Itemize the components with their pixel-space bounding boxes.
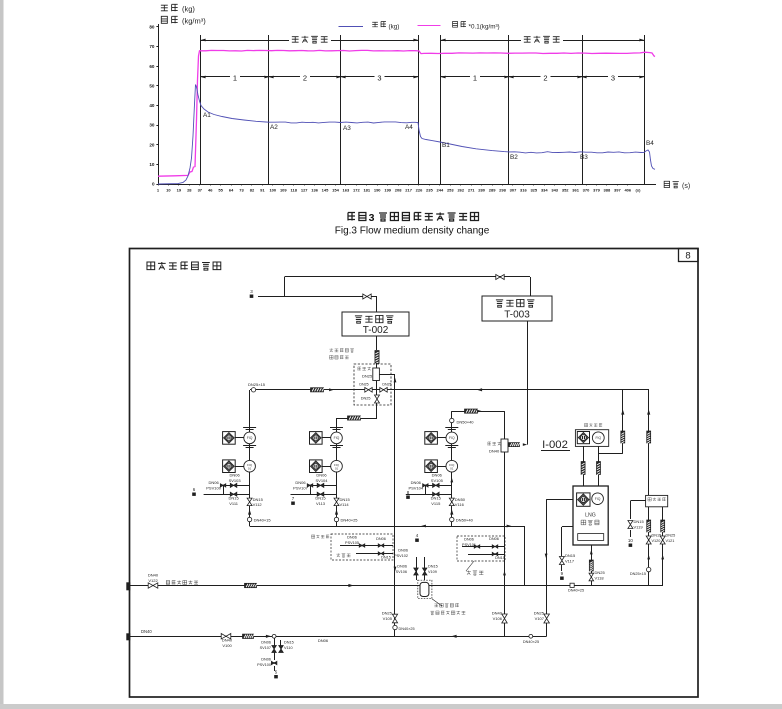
svg-text:LNG: LNG [585,513,596,519]
svg-text:V121: V121 [666,539,675,543]
diverter assembly dashed box [354,364,391,405]
flow computer SV104 upper [310,432,323,445]
svg-text:2: 2 [303,74,307,83]
wire LNG outlet leg [591,545,593,585]
svg-text:V118: V118 [595,575,605,580]
svg-text:91: 91 [260,188,265,193]
wire inlet line to T-003 [285,276,531,278]
svg-text:226: 226 [416,188,423,193]
svg-text:V115: V115 [431,501,441,506]
flow computer SV105 upper [425,432,438,445]
valve V119 [628,521,633,529]
bypass valve V113 line [291,494,337,496]
svg-text:136: 136 [311,188,318,193]
wire header drop to right column [648,390,650,496]
wire vertical return line [394,374,396,636]
svg-text:3: 3 [369,212,375,224]
svg-text:DN06: DN06 [261,658,271,662]
page number box 8 [679,249,699,262]
electronic balance T-003 [482,296,552,321]
svg-text:DN50: DN50 [455,497,466,502]
svg-text:0: 0 [152,182,155,187]
svg-text:V117: V117 [565,558,575,563]
svg-text:DN15: DN15 [284,641,294,645]
valve on T-003 inlet [496,275,504,280]
svg-text:DN15: DN15 [340,497,351,502]
chart y-axis [158,24,160,184]
valve DN25 header right [380,388,387,393]
wire T-002 downcomer [376,336,378,350]
valve V114 [334,498,339,506]
valve V120 [646,536,651,544]
flex hose on header [311,388,324,392]
svg-text:DN40: DN40 [141,629,152,634]
wire metering branch at x=336.5 [336,427,338,526]
flow computer SV103 lower [223,460,236,473]
svg-text:(kg): (kg) [389,24,400,31]
svg-text:3: 3 [377,74,381,83]
svg-text:154: 154 [332,188,339,193]
svg-text:55: 55 [218,188,223,193]
svg-text:PSV104: PSV104 [408,486,423,491]
wire T-003 downcomer [527,321,529,445]
svg-text:199: 199 [384,188,391,193]
svg-text:FIQ: FIQ [247,436,253,440]
svg-text:DN15: DN15 [315,496,326,501]
LNG dispenser box [573,486,608,545]
wire vertical line to V106 [504,411,506,636]
valve SV107 [272,646,276,653]
svg-text:DN25: DN25 [595,570,606,575]
reducer DN40x25 on return [393,625,397,629]
svg-text:325: 325 [530,188,537,193]
valve SV106 stub [416,557,418,580]
svg-text:DN15: DN15 [495,556,505,560]
svg-text:V113: V113 [316,501,326,506]
svg-text:40: 40 [149,103,155,108]
relief valve PSV104 line [423,485,452,487]
wire device to LNG left stub [583,446,585,486]
svg-text:334: 334 [541,188,548,193]
svg-text:B3: B3 [580,154,588,161]
svg-text:PSV100: PSV100 [257,663,271,667]
svg-text:PSV100: PSV100 [206,486,221,491]
flex hose [375,351,379,364]
svg-text:361: 361 [572,188,579,193]
svg-text:3: 3 [611,74,615,83]
svg-text:B2: B2 [510,154,518,161]
valve DN25 header left [365,388,372,393]
svg-text:V106: V106 [493,616,503,621]
valve V105 [392,614,397,623]
svg-text:60: 60 [149,64,155,69]
valve V106 [502,614,507,623]
wire riser [284,277,286,297]
svg-text:(s): (s) [682,183,690,190]
svg-text:DN25: DN25 [382,611,393,616]
verification device upper box [584,423,587,426]
svg-text:DN40: DN40 [148,573,159,578]
svg-text:SV107: SV107 [260,646,271,650]
relief valve PSV100 line [221,485,250,487]
wire inlet line to T-002 [258,296,377,298]
verification device lower box [646,495,668,506]
svg-text:DN06: DN06 [411,480,422,485]
relief valve PSV100 [271,661,277,664]
svg-text:244: 244 [437,188,444,193]
svg-text:271: 271 [468,188,475,193]
svg-text:20: 20 [149,142,155,147]
svg-text:V119: V119 [634,524,644,529]
svg-text:V112: V112 [253,502,263,507]
svg-text:(kg/m³): (kg/m³) [182,17,206,26]
svg-text:V105: V105 [383,616,393,621]
svg-text:30: 30 [149,123,155,128]
svg-text:370: 370 [583,188,590,193]
flex hose on branch 2 feed [348,416,361,420]
diagram frame [130,249,699,698]
svg-text:(s): (s) [636,188,642,193]
diagram title [147,262,155,270]
svg-text:DN15: DN15 [253,497,264,502]
wire collector drop [524,526,526,585]
svg-text:316: 316 [520,188,527,193]
svg-text:DN06: DN06 [464,538,474,542]
svg-text:FIQ: FIQ [449,436,455,440]
wire V119 branch [630,500,645,502]
svg-text:01: 01 [450,466,454,470]
svg-text:1: 1 [473,74,477,83]
svg-text:80: 80 [149,25,155,30]
svg-text:406: 406 [624,188,631,193]
svg-text:DN15: DN15 [381,556,391,560]
valve V109 stub [424,557,426,580]
svg-text:01: 01 [248,466,252,470]
svg-text:V109: V109 [428,570,437,574]
svg-text:1: 1 [233,74,237,83]
svg-text:DN25: DN25 [666,534,676,538]
valve DN25 below diverter [375,395,380,403]
svg-text:DN40×25: DN40×25 [523,640,539,644]
wire metering branch at x=451.8 [451,421,453,527]
svg-text:DN25: DN25 [359,383,368,387]
svg-text:379: 379 [593,188,600,193]
wire branch3 top feed [452,411,505,413]
svg-text:298: 298 [499,188,506,193]
diverter DN25 [373,368,380,381]
svg-text:Fig.3 Flow medium density cha: Fig.3 Flow medium density change [335,226,490,237]
chart x-axis [158,184,656,186]
svg-text:109: 109 [280,188,287,193]
reducer DN50x40 top [450,418,454,422]
svg-text:181: 181 [363,188,370,193]
svg-text:DN25: DN25 [382,383,391,387]
svg-text:DN40: DN40 [222,638,233,643]
svg-text:DN25: DN25 [362,374,373,379]
svg-text:46: 46 [208,188,213,193]
svg-text:A3: A3 [343,125,351,132]
svg-text:163: 163 [343,188,350,193]
svg-text:64: 64 [229,188,234,193]
svg-text:DN06: DN06 [261,641,271,645]
svg-text:262: 262 [457,188,464,193]
svg-text:10: 10 [628,538,634,543]
flex hose on supply line [243,634,254,638]
svg-text:A1: A1 [203,112,211,119]
legend density line [418,25,441,27]
svg-text:50: 50 [149,84,155,89]
svg-text:PSV102: PSV102 [394,554,408,558]
svg-text:307: 307 [510,188,517,193]
svg-text:01: 01 [335,466,339,470]
svg-text:DN06: DN06 [229,473,240,478]
valve V121 [660,536,665,544]
svg-text:SV104: SV104 [315,478,328,483]
svg-text:DN40: DN40 [492,611,503,616]
valve on T-002 inlet [363,294,371,299]
svg-text:SV103: SV103 [229,478,242,483]
wire metering branch at x=249.6 [249,390,251,526]
svg-text:DN06: DN06 [489,537,499,541]
svg-text:FIQ: FIQ [595,436,601,440]
svg-text:DN06: DN06 [208,480,219,485]
svg-text:SV106: SV106 [396,570,407,574]
valve V118 [589,573,594,581]
svg-text:PSV105: PSV105 [345,541,359,545]
svg-text:DN06: DN06 [398,549,408,553]
svg-text:B4: B4 [646,140,654,147]
bypass valve V111 line [204,494,250,496]
valve V117 [559,557,564,565]
svg-text:DN15: DN15 [428,565,438,569]
svg-text:PSV107: PSV107 [293,486,308,491]
svg-text:82: 82 [250,188,255,193]
svg-text:DN06: DN06 [376,537,386,541]
flex hose branch3 feed [465,409,478,413]
valve V112 [247,498,252,506]
svg-text:DN06: DN06 [295,480,306,485]
svg-text:DN40×25: DN40×25 [399,627,415,631]
svg-text:235: 235 [426,188,433,193]
svg-text:*0.1(kg/m³): *0.1(kg/m³) [469,24,500,31]
svg-text:DN15: DN15 [228,496,239,501]
svg-text:145: 145 [322,188,329,193]
svg-text:100: 100 [269,188,276,193]
svg-text:T-002: T-002 [363,325,389,336]
wire dispenser feed line [129,585,663,587]
reducer DN25x15 [251,388,255,392]
svg-text:DN25: DN25 [361,397,371,401]
wire to LNG dispenser inlet [546,499,573,501]
wire right riser 1 [622,390,624,454]
degasser dashed box right [457,536,505,561]
valve V107 [544,614,550,623]
svg-text:217: 217 [405,188,412,193]
wire supply line DN40 [129,636,547,638]
wire right riser 2 [648,390,650,496]
svg-text:DN25×15: DN25×15 [630,572,646,576]
svg-text:V111: V111 [229,501,239,506]
diverter DN40 [501,439,508,452]
reducer DN40x25 junction [529,634,533,638]
svg-text:V122: V122 [148,578,158,583]
svg-text:352: 352 [562,188,569,193]
svg-text:DN25×15: DN25×15 [248,382,266,387]
svg-text:DN50×40: DN50×40 [456,518,474,523]
electronic balance T-002 [342,312,409,336]
wire main header [250,389,649,391]
svg-text:2: 2 [543,74,547,83]
svg-text:I-002: I-002 [542,439,568,451]
svg-text:V110: V110 [284,646,293,650]
svg-text:127: 127 [301,188,308,193]
svg-text:DN40×15: DN40×15 [254,518,272,523]
degasser dashed box left [331,534,393,560]
flow curve [158,85,655,185]
svg-text:28: 28 [187,188,192,193]
svg-text:V107: V107 [535,616,545,621]
svg-text:V100: V100 [222,643,232,648]
svg-text:70: 70 [149,44,155,49]
svg-text:(kg): (kg) [182,5,195,14]
junction SV107 tap [272,634,276,638]
legend flow (kg) line [339,26,364,28]
svg-text:V116: V116 [455,502,465,507]
wire device to LNG right stub [598,446,600,486]
svg-text:397: 397 [614,188,621,193]
svg-text:DN06: DN06 [397,565,407,569]
wire down to T-003 [530,277,532,296]
wire V117 branch [562,526,573,528]
relief valve PSV107 line [308,485,337,487]
valve V122 [148,583,158,588]
svg-text:DN40×25: DN40×25 [341,518,359,523]
svg-text:V120: V120 [652,539,661,543]
svg-text:289: 289 [489,188,496,193]
bypass valve V115 line [406,494,452,496]
wire V120 leg [648,507,650,586]
svg-text:19: 19 [177,188,182,193]
svg-text:10: 10 [166,188,171,193]
svg-text:118: 118 [290,188,297,193]
wire to branch 2 [337,418,378,420]
svg-text:DN15: DN15 [431,496,442,501]
svg-text:DN25: DN25 [534,611,545,616]
svg-text:280: 280 [478,188,485,193]
reducer DN25x15 right [647,567,651,571]
flow computer SV105 lower [425,460,438,473]
svg-text:DN40: DN40 [489,449,500,454]
svg-text:172: 172 [353,188,360,193]
svg-text:73: 73 [239,188,244,193]
svg-text:FIQ: FIQ [595,497,601,501]
svg-text:DN15: DN15 [565,553,576,558]
svg-text:A4: A4 [405,124,413,131]
valve V100 [221,634,231,640]
svg-text:A2: A2 [270,124,278,131]
svg-text:DN06: DN06 [432,473,443,478]
svg-text:DN40×25: DN40×25 [568,589,584,593]
svg-text:FIQ: FIQ [334,436,340,440]
valve V110 [279,646,283,653]
wire stub to right riser [599,453,623,455]
flex hose on feed line [245,583,257,587]
svg-text:T-003: T-003 [504,310,530,321]
wire LNG feed drop to V107 [546,500,548,637]
svg-text:DN50×40: DN50×40 [457,420,475,425]
svg-text:388: 388 [604,188,611,193]
svg-text:B1: B1 [442,142,450,149]
flex hose diverter DN40 outlet [509,443,520,447]
svg-text:208: 208 [395,188,402,193]
wire V121 leg [662,507,664,586]
svg-text:DN06: DN06 [316,473,327,478]
svg-text:10: 10 [149,162,155,167]
flow computer SV104 lower [310,460,323,473]
svg-text:8: 8 [685,251,690,262]
svg-text:DN06: DN06 [318,638,329,643]
svg-text:343: 343 [551,188,558,193]
flow computer SV103 upper [223,432,236,445]
svg-text:37: 37 [198,188,203,193]
svg-text:SV105: SV105 [431,478,444,483]
wire collector line [250,526,524,528]
valve V116 [449,498,454,506]
svg-text:DN15: DN15 [634,519,645,524]
svg-text:DN06: DN06 [347,536,357,540]
density curve [158,50,655,176]
svg-text:V114: V114 [340,502,350,507]
svg-text:190: 190 [374,188,381,193]
wire diverter outlet [379,374,395,376]
svg-text:253: 253 [447,188,454,193]
figure caption [348,213,355,221]
gas-liquid separator vessel [418,580,432,599]
svg-text:DN15: DN15 [652,534,662,538]
